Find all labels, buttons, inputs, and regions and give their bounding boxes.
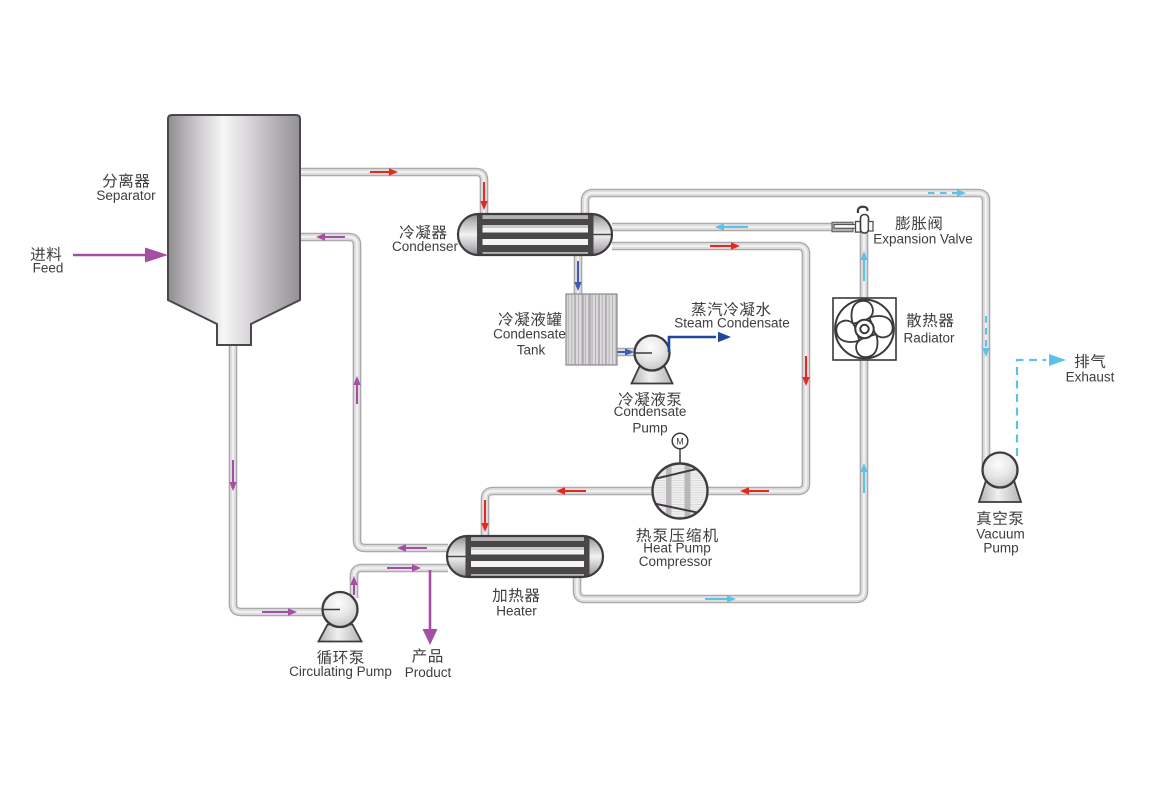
svg-text:Compressor: Compressor	[639, 554, 713, 569]
svg-text:Expansion Valve: Expansion Valve	[873, 232, 973, 247]
svg-text:Heater: Heater	[496, 604, 537, 619]
svg-text:Condensate: Condensate	[614, 404, 687, 419]
svg-text:Steam Condensate: Steam Condensate	[674, 316, 790, 331]
svg-text:Condensate: Condensate	[493, 327, 566, 342]
svg-text:Pump: Pump	[983, 541, 1018, 556]
svg-text:Feed: Feed	[33, 261, 64, 276]
svg-text:Product: Product	[405, 665, 452, 680]
svg-text:Circulating Pump: Circulating Pump	[289, 664, 392, 679]
svg-text:Condenser: Condenser	[392, 239, 459, 254]
svg-text:Vacuum: Vacuum	[976, 527, 1025, 542]
svg-text:M: M	[676, 437, 684, 447]
svg-text:Radiator: Radiator	[903, 331, 955, 346]
svg-text:Exhaust: Exhaust	[1066, 370, 1115, 385]
svg-text:Tank: Tank	[517, 343, 546, 358]
svg-text:Separator: Separator	[96, 188, 156, 203]
svg-text:Pump: Pump	[632, 421, 667, 436]
